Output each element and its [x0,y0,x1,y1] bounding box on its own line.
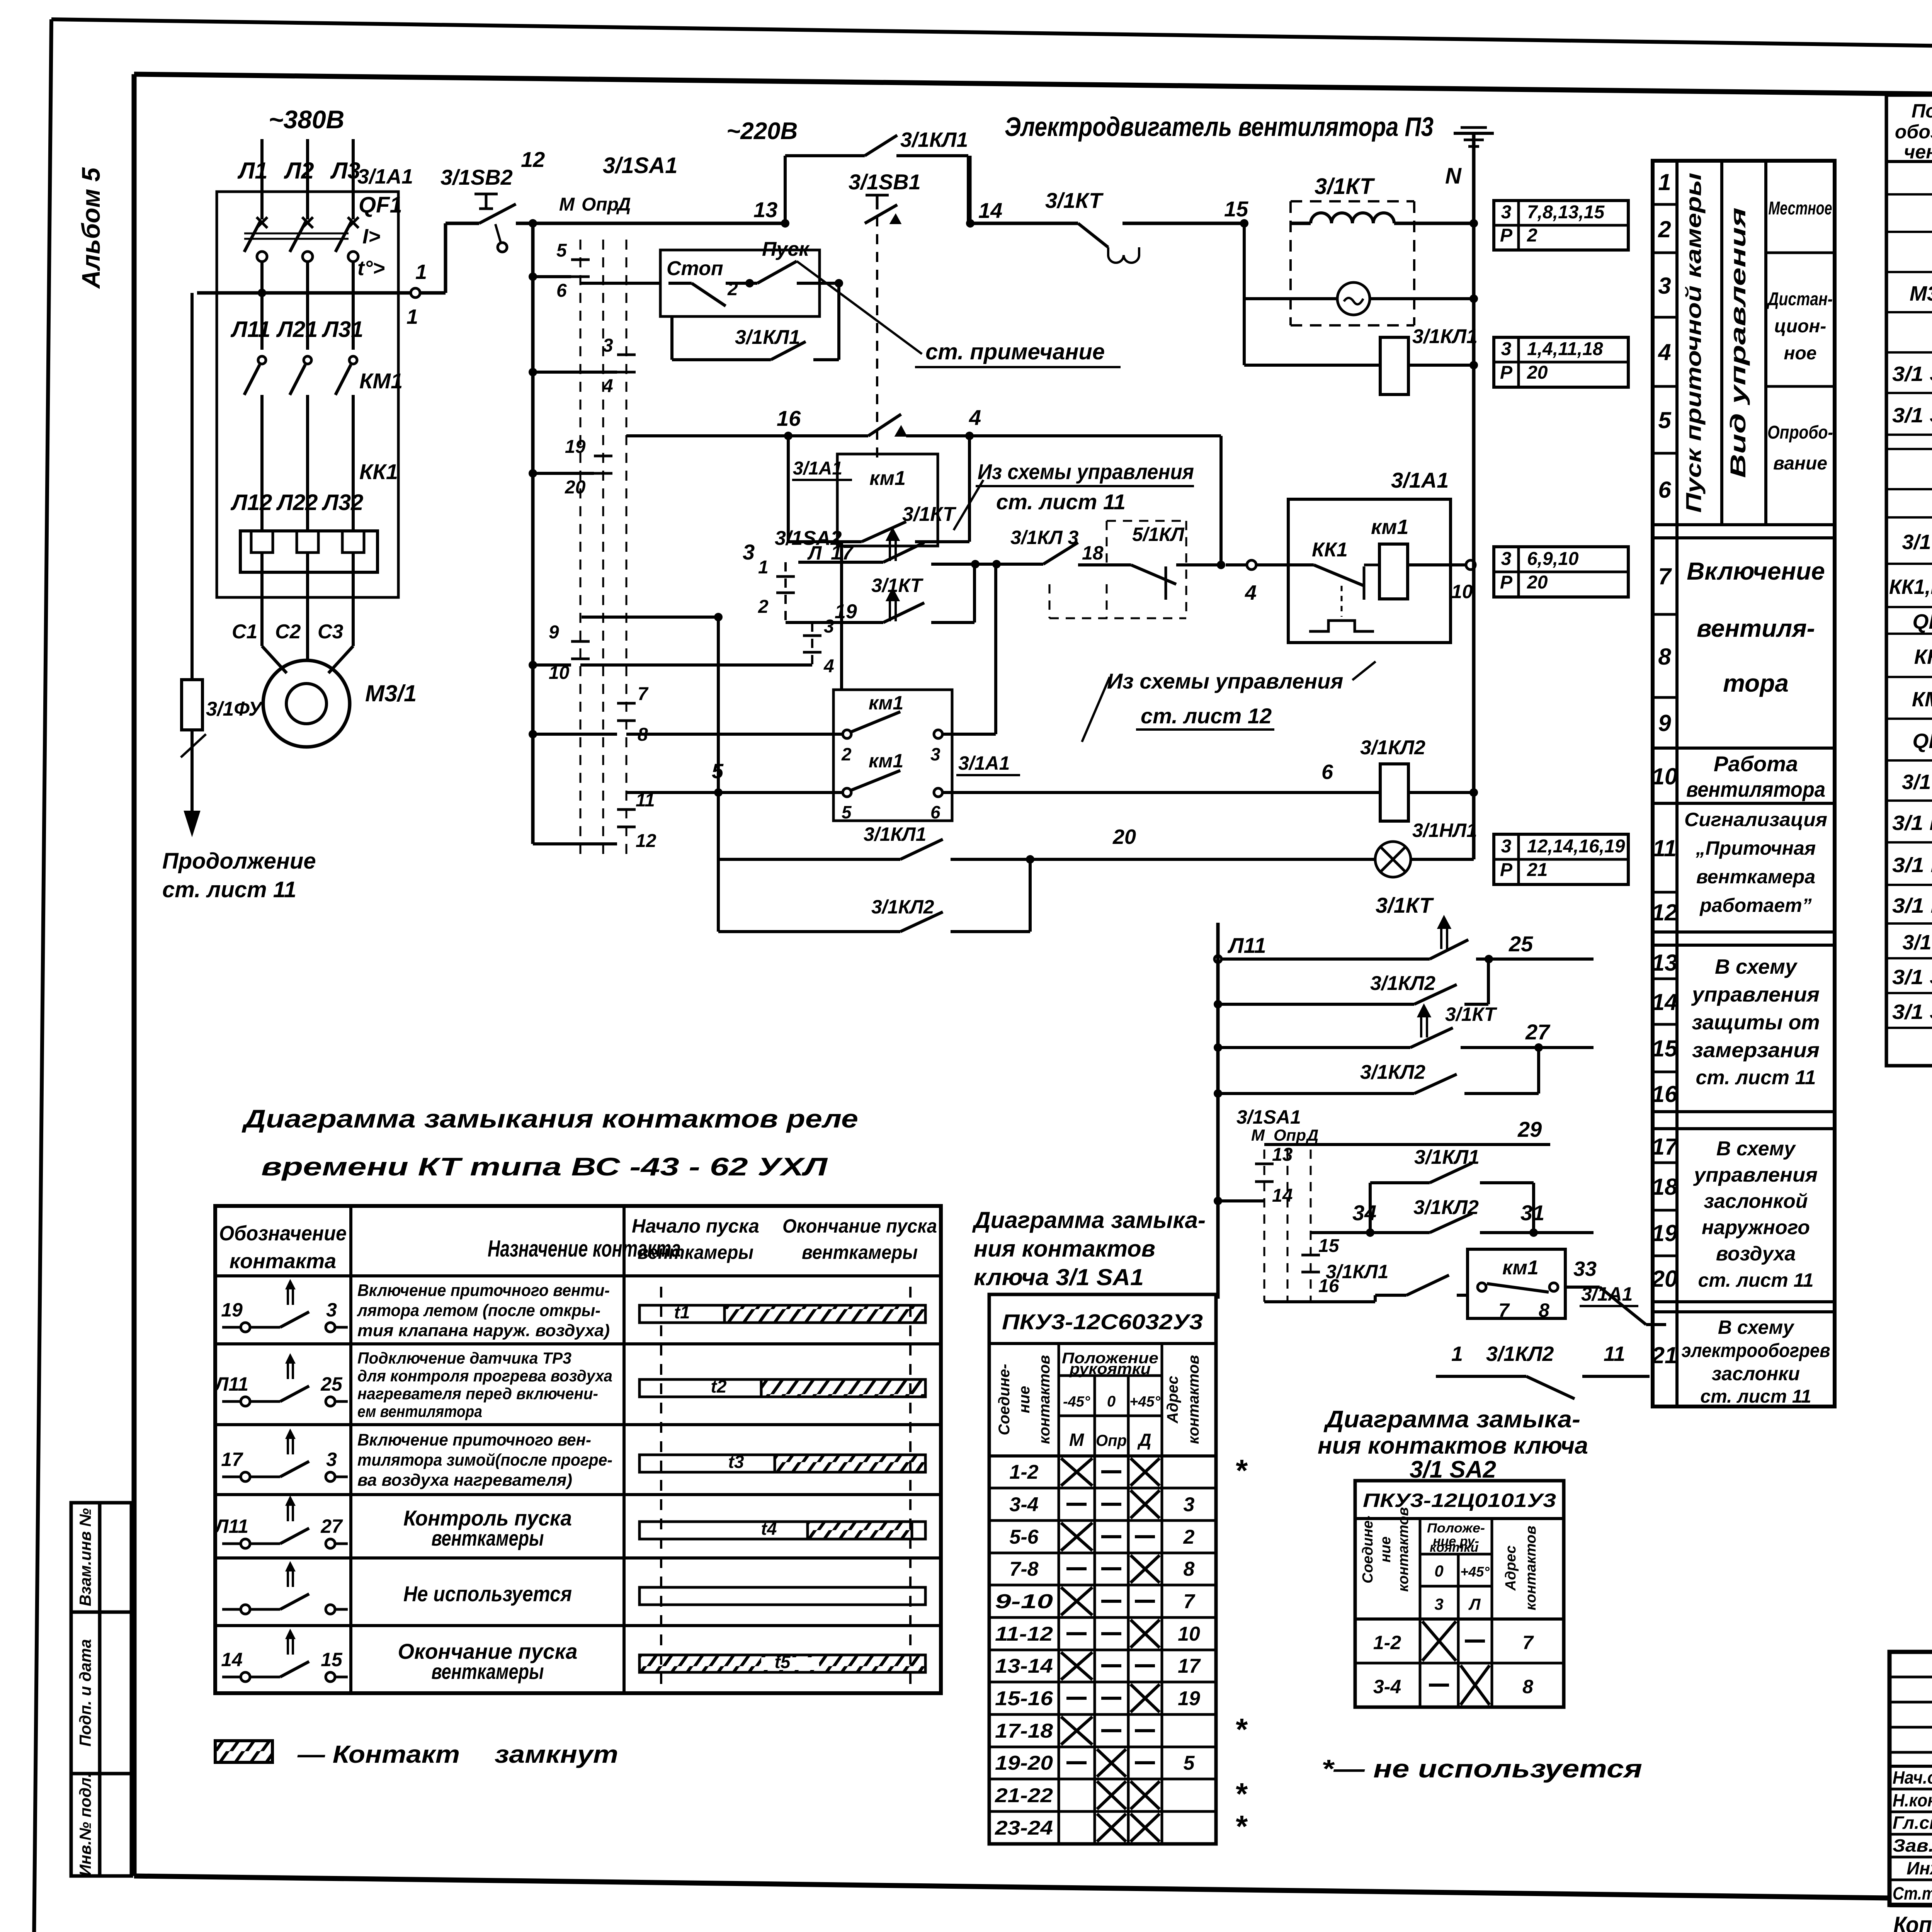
svg-text:Диаграмма замыкания контакто: Диаграмма замыкания контактов реле [241,1104,858,1133]
svg-text:М: М [1069,1430,1085,1450]
svg-text:тия клапана наруж. воздуха): тия клапана наруж. воздуха) [357,1321,610,1340]
svg-text:Подп. и дата: Подп. и дата [76,1639,94,1747]
svg-text:км1: км1 [1371,515,1408,539]
svg-text:3: 3 [1184,1493,1195,1516]
svg-text:Л3: Л3 [330,158,361,184]
svg-text:Местное: Местное [1769,198,1832,219]
svg-text:ст. лист 11: ст. лист 11 [1696,1066,1816,1089]
svg-text:контактов: контактов [1036,1355,1053,1444]
svg-text:Включение приточного вен-: Включение приточного вен- [357,1430,591,1449]
svg-text:Л11: Л11 [214,1515,248,1537]
svg-text:венткамеры: венткамеры [802,1242,918,1263]
svg-text:3: 3 [603,335,613,356]
svg-text:3/1ФУ: 3/1ФУ [206,698,264,720]
svg-text:3/1КЛ2: 3/1КЛ2 [1360,1061,1425,1083]
svg-text:тора: тора [1723,669,1789,697]
svg-text:12: 12 [636,831,656,851]
svg-text:3/1КТ: 3/1КТ [1045,188,1104,213]
svg-text:Л11: Л11 [1227,933,1266,957]
svg-text:3/1КЛ1: 3/1КЛ1 [1414,1146,1480,1168]
svg-text:t°>: t°> [357,257,385,280]
svg-text:Д: Д [616,194,631,215]
svg-text:3: 3 [824,616,834,637]
svg-text:3/1 FУ: 3/1 FУ [1902,770,1932,794]
svg-text:6: 6 [1321,760,1333,784]
svg-text:3/1КЛ2: 3/1КЛ2 [871,896,934,918]
svg-text:5: 5 [1658,407,1672,433]
svg-text:20: 20 [1527,362,1548,383]
svg-text:КК1: КК1 [1914,645,1932,668]
svg-text:5: 5 [712,760,724,783]
svg-text:3/1КЛ1: 3/1КЛ1 [864,823,926,845]
svg-text:М: М [1251,1126,1265,1144]
svg-text:В схему: В схему [1715,955,1798,978]
svg-text:*: * [1235,1809,1248,1844]
svg-text:6: 6 [1658,477,1671,503]
svg-text:3/1КЛ1: 3/1КЛ1 [1412,325,1478,348]
svg-text:5: 5 [1184,1752,1195,1774]
svg-text:17-18: 17-18 [995,1720,1053,1742]
svg-text:16: 16 [777,406,801,430]
svg-text:коятки: коятки [1430,1540,1478,1555]
svg-text:3/1 КЛ2: 3/1 КЛ2 [1892,894,1932,917]
svg-text:времени КТ типа ВС -43: времени КТ типа ВС -43 - 62 УХЛ [261,1152,828,1181]
svg-text:6,9,10: 6,9,10 [1527,549,1579,569]
svg-text:14: 14 [978,198,1002,223]
svg-text:3/1А1: 3/1А1 [793,458,842,479]
svg-text:+45°: +45° [1460,1564,1490,1580]
svg-text:Диаграмма замыка-: Диаграмма замыка- [1323,1406,1580,1433]
svg-text:15: 15 [321,1649,343,1670]
svg-text:5: 5 [556,240,567,261]
svg-text:3: 3 [930,744,940,764]
svg-text:13: 13 [1652,950,1678,976]
svg-text:Р: Р [1500,362,1513,383]
svg-text:3/1КЛ 3: 3/1КЛ 3 [1010,527,1078,548]
svg-text:17: 17 [221,1449,243,1470]
svg-text:3/1КТ: 3/1КТ [871,575,924,596]
svg-text:Электродвигатель вентилятора П: Электродвигатель вентилятора П3 [1005,112,1434,142]
svg-text:М3/1: М3/1 [1910,282,1932,305]
svg-text:1: 1 [415,260,427,284]
svg-text:Положе-: Положе- [1427,1521,1485,1536]
svg-text:23-24: 23-24 [995,1817,1053,1839]
svg-text:9-10: 9-10 [995,1590,1053,1613]
svg-text:ПКУ3-12С6032У3: ПКУ3-12С6032У3 [1002,1310,1203,1334]
svg-text:14: 14 [221,1649,243,1670]
svg-text:электрообогрев: электрообогрев [1682,1340,1830,1361]
svg-text:QF1: QF1 [359,192,402,218]
svg-text:вентилятора: вентилятора [1686,777,1825,801]
svg-text:*: * [1235,1712,1248,1747]
svg-text:11: 11 [1653,835,1677,861]
svg-text:Диаграмма замыка-: Диаграмма замыка- [972,1207,1206,1233]
svg-text:обозна-: обозна- [1895,121,1932,143]
svg-text:18: 18 [1652,1174,1678,1200]
svg-text:7: 7 [1498,1299,1510,1321]
svg-text:8: 8 [1539,1299,1549,1321]
svg-text:Опр: Опр [1096,1431,1127,1449]
svg-text:8: 8 [1522,1676,1533,1697]
svg-text:КК1: КК1 [359,459,398,484]
svg-text:3/1 КЛ1: 3/1 КЛ1 [1892,854,1932,877]
svg-text:ст. лист 11: ст. лист 11 [1700,1386,1811,1407]
svg-text:3/1SA1: 3/1SA1 [1236,1106,1301,1128]
svg-text:ем вентилятора: ем вентилятора [357,1402,482,1420]
svg-text:Л11: Л11 [230,317,270,342]
svg-text:км1: км1 [1502,1257,1539,1279]
svg-text:ст. примечание: ст. примечание [925,339,1105,364]
svg-text:наружного: наружного [1702,1216,1810,1239]
svg-text:3/1А1: 3/1А1 [357,165,413,188]
svg-text:В схему: В схему [1716,1138,1796,1160]
svg-text:Не используется: Не используется [403,1582,572,1606]
svg-text:км1: км1 [869,750,903,772]
svg-text:Р: Р [1500,860,1513,880]
svg-text:венткамеры: венткамеры [432,1659,544,1684]
svg-text:Зав.гр.: Зав.гр. [1893,1835,1932,1855]
svg-text:КК1,КМ1,: КК1,КМ1, [1889,575,1932,599]
svg-text:3/1КТ: 3/1КТ [1445,1003,1498,1025]
svg-text:Обозначение: Обозначение [219,1222,347,1245]
svg-text:Включение приточного венти-: Включение приточного венти- [357,1281,610,1300]
svg-text:ст. лист 11: ст. лист 11 [1698,1269,1813,1291]
svg-text:25: 25 [320,1373,343,1395]
svg-text:20: 20 [1527,572,1548,593]
svg-text:Л32: Л32 [321,490,363,515]
svg-text:ние: ние [1016,1386,1033,1413]
svg-text:венткамеры: венткамеры [638,1242,753,1263]
svg-text:Инв.№ подл.: Инв.№ подл. [76,1773,94,1876]
svg-text:Копировал: Копировал [1893,1912,1932,1932]
svg-text:1: 1 [406,305,418,328]
svg-text:тилятора зимой(после прогре-: тилятора зимой(после прогре- [357,1451,612,1469]
svg-text:ст. лист 12: ст. лист 12 [1141,704,1272,728]
svg-text:19: 19 [565,437,586,457]
svg-text:5/1КЛ: 5/1КЛ [1132,524,1185,545]
svg-text:защиты от: защиты от [1692,1011,1820,1034]
svg-text:ние: ние [1378,1536,1394,1562]
svg-text:2: 2 [758,597,769,617]
svg-text:ст. лист 11: ст. лист 11 [996,490,1126,514]
svg-text:Альбом 5: Альбом 5 [77,167,105,289]
svg-text:10: 10 [1178,1623,1200,1645]
svg-text:3/1КЛ2: 3/1КЛ2 [1360,736,1425,759]
svg-text:0: 0 [1107,1393,1116,1410]
svg-text:Л31: Л31 [321,317,363,342]
svg-text:3/1КЛ2: 3/1КЛ2 [1486,1342,1554,1366]
svg-text:27: 27 [320,1515,343,1537]
svg-text:t4: t4 [761,1519,777,1539]
svg-text:3/1НЛ1: 3/1НЛ1 [1412,820,1477,841]
svg-text:3/1КТ: 3/1КТ [1315,174,1375,199]
svg-text:3-4: 3-4 [1373,1676,1401,1697]
svg-text:Нач.отд: Нач.отд [1893,1767,1932,1787]
svg-text:Сигнализация: Сигнализация [1684,809,1827,830]
svg-text:Из схемы управления: Из схемы управления [1107,669,1343,693]
svg-text:15: 15 [1652,1036,1678,1061]
svg-text:3/1SA1: 3/1SA1 [603,153,677,178]
svg-text:3: 3 [1501,549,1512,569]
svg-text:управления: управления [1693,1164,1818,1186]
svg-text:3/1 SA1: 3/1 SA1 [1892,966,1932,989]
svg-text:Д: Д [1137,1430,1151,1450]
svg-text:7: 7 [1522,1632,1534,1653]
svg-text:Пуск приточной камеры: Пуск приточной камеры [1681,173,1706,513]
svg-text:14: 14 [1272,1185,1293,1206]
svg-text:t3: t3 [728,1452,744,1472]
svg-text:Л: Л [1468,1595,1481,1613]
svg-text:Гл.спец: Гл.спец [1893,1813,1932,1833]
svg-text:3/1КЛ1: 3/1КЛ1 [735,326,800,349]
svg-text:Опробо-: Опробо- [1767,422,1833,443]
svg-text:0: 0 [1434,1562,1443,1580]
svg-text:11-12: 11-12 [995,1623,1053,1645]
svg-text:Л2: Л2 [284,158,314,184]
svg-text:В схему: В схему [1718,1316,1795,1338]
svg-text:Начало пуска: Начало пуска [632,1215,759,1237]
svg-text:Взам.инв №: Взам.инв № [76,1508,94,1606]
svg-text:4: 4 [969,405,981,430]
svg-text:19: 19 [1652,1220,1678,1246]
svg-text:t2: t2 [711,1376,727,1396]
svg-text:3/1 SB2: 3/1 SB2 [1892,404,1932,427]
svg-text:3/1КЛ1: 3/1КЛ1 [1326,1261,1388,1282]
svg-text:6: 6 [556,281,567,301]
svg-text:33: 33 [1573,1257,1597,1281]
svg-text:ния контактов ключа: ния контактов ключа [1318,1432,1588,1459]
svg-text:вентиля-: вентиля- [1697,614,1815,642]
svg-text:1: 1 [1658,169,1671,195]
svg-text:*: * [1235,1777,1248,1811]
svg-text:Адрес: Адрес [1503,1546,1519,1591]
svg-text:+45°: +45° [1129,1394,1160,1410]
svg-text:4: 4 [823,656,834,677]
svg-text:замкнут: замкнут [495,1740,618,1768]
svg-text:ния контактов: ния контактов [974,1236,1155,1262]
svg-text:Адрес: Адрес [1164,1376,1181,1423]
svg-text:13: 13 [753,197,777,222]
svg-text:19: 19 [835,600,857,623]
svg-text:3/1КТ: 3/1КТ [902,503,957,526]
svg-text:вание: вание [1773,453,1827,474]
svg-text:3/1 SA2: 3/1 SA2 [1892,1000,1932,1024]
svg-text:4: 4 [1245,581,1257,604]
svg-text:~380В: ~380В [269,105,344,134]
svg-text:6: 6 [930,802,940,822]
svg-text:5-6: 5-6 [1009,1526,1039,1548]
svg-text:Л22: Л22 [276,490,318,515]
svg-text:21-22: 21-22 [995,1784,1053,1807]
svg-text:7: 7 [1184,1590,1196,1613]
svg-text:11: 11 [1604,1342,1625,1366]
svg-text:3: 3 [743,540,755,564]
svg-text:Пуск: Пуск [762,238,810,260]
svg-text:Л11: Л11 [214,1373,248,1395]
svg-text:Из схемы управления: Из схемы управления [978,459,1194,484]
svg-text:Поз.: Поз. [1912,100,1932,122]
svg-text:км1: км1 [869,692,903,714]
svg-text:29: 29 [1517,1117,1542,1141]
svg-text:7: 7 [1658,563,1672,589]
svg-text:ключа 3/1 SA1: ключа 3/1 SA1 [974,1264,1144,1290]
svg-text:Соедине-: Соедине- [1360,1515,1376,1583]
svg-text:19: 19 [221,1299,243,1321]
svg-text:Окончание пуска: Окончание пуска [782,1215,937,1237]
svg-text:цион-: цион- [1774,316,1827,337]
svg-text:9: 9 [1658,710,1671,736]
svg-text:1-2: 1-2 [1373,1632,1401,1653]
svg-text:КМ1: КМ1 [359,369,403,393]
svg-text:Соедине-: Соедине- [996,1364,1013,1435]
svg-text:3/1КЛ1: 3/1КЛ1 [900,128,968,151]
svg-text:заслонкой: заслонкой [1704,1190,1808,1213]
svg-text:3/1КТ: 3/1КТ [1376,893,1434,917]
svg-text:10: 10 [1652,764,1678,789]
svg-text:контактов: контактов [1395,1507,1412,1592]
svg-text:I>: I> [362,225,381,248]
svg-text:км1: км1 [869,467,906,490]
svg-text:Инж.: Инж. [1906,1858,1932,1878]
svg-text:2: 2 [1183,1526,1195,1548]
svg-text:Стоп: Стоп [667,257,723,280]
svg-text:М: М [559,194,575,215]
svg-text:t1: t1 [674,1302,690,1322]
svg-text:N: N [1445,163,1462,189]
svg-text:18: 18 [1082,542,1104,564]
svg-text:-45°: -45° [1063,1394,1090,1410]
svg-text:20: 20 [1651,1266,1678,1292]
svg-text:15: 15 [1224,197,1248,221]
svg-text:17: 17 [1652,1134,1679,1160]
svg-text:15-16: 15-16 [995,1687,1053,1710]
svg-text:8: 8 [1658,644,1671,670]
svg-text:3: 3 [326,1449,337,1470]
svg-text:М3/1: М3/1 [365,680,417,706]
svg-text:QF1: QF1 [1912,610,1932,633]
svg-text:7,8,13,15: 7,8,13,15 [1527,202,1605,223]
svg-text:КМ1: КМ1 [1912,688,1932,711]
svg-text:16: 16 [1652,1081,1678,1107]
svg-text:10: 10 [1451,581,1473,602]
svg-text:Д: Д [1306,1126,1318,1144]
svg-text:Р: Р [1500,572,1513,593]
svg-text:19-20: 19-20 [995,1752,1053,1774]
svg-text:12: 12 [521,147,545,172]
svg-text:3: 3 [1434,1595,1443,1613]
svg-text:1: 1 [758,557,769,578]
svg-text:ПКУ3-12Ц0101У3: ПКУ3-12Ц0101У3 [1363,1490,1556,1511]
svg-text:20: 20 [1112,825,1136,849]
svg-text:2: 2 [1658,216,1671,242]
svg-text:7-8: 7-8 [1009,1558,1038,1580]
svg-text:27: 27 [1525,1020,1551,1044]
svg-text:7: 7 [638,684,649,704]
svg-text:Подключение датчика ТР3: Подключение датчика ТР3 [357,1349,571,1367]
svg-text:21: 21 [1527,860,1548,880]
svg-text:3: 3 [1658,273,1671,299]
svg-text:20: 20 [565,477,586,498]
svg-text:34: 34 [1352,1201,1376,1225]
svg-text:управления: управления [1691,983,1820,1006]
svg-text:~220В: ~220В [726,118,798,145]
svg-text:3/1SB1: 3/1SB1 [849,170,921,194]
svg-text:Л12: Л12 [230,490,272,515]
svg-text:3: 3 [1501,339,1512,359]
svg-text:3: 3 [1501,836,1512,857]
svg-text:3/1 HЛ1: 3/1 HЛ1 [1892,811,1932,835]
svg-text:1: 1 [1451,1342,1463,1366]
svg-text:Опр: Опр [1274,1126,1306,1144]
svg-text:3/1 А1: 3/1 А1 [1902,531,1932,554]
svg-text:15: 15 [1318,1236,1340,1256]
svg-text:25: 25 [1509,932,1533,956]
svg-text:3/1КЛ2: 3/1КЛ2 [1413,1196,1479,1219]
svg-text:ва воздуха нагревателя): ва воздуха нагревателя) [357,1471,572,1490]
svg-text:замерзания: замерзания [1692,1039,1820,1062]
svg-text:С3: С3 [318,621,344,643]
svg-text:Включение: Включение [1687,557,1825,585]
svg-text:воздуха: воздуха [1716,1243,1796,1265]
svg-text:8: 8 [1184,1558,1195,1580]
svg-text:С2: С2 [275,621,301,643]
svg-text:3/1 SB1: 3/1 SB1 [1892,362,1932,386]
svg-text:9: 9 [549,622,559,643]
svg-text:венткамеры: венткамеры [432,1526,544,1550]
svg-text:нагревателя перед включени-: нагревателя перед включени- [357,1384,598,1403]
svg-text:ное: ное [1784,343,1816,364]
svg-text:Л: Л [807,542,822,564]
svg-text:2: 2 [1527,225,1537,246]
svg-text:Опр: Опр [582,194,619,215]
svg-text:17: 17 [1178,1655,1201,1677]
svg-text:чение: чение [1904,141,1932,163]
svg-text:Н.контр: Н.контр [1893,1790,1932,1810]
svg-text:контакта: контакта [230,1250,336,1273]
svg-text:14: 14 [1652,989,1678,1015]
svg-text:контактов: контактов [1523,1526,1539,1610]
svg-text:для контроля прогрева воздуха: для контроля прогрева воздуха [357,1367,612,1385]
svg-text:5: 5 [842,802,852,822]
svg-text:t5: t5 [775,1652,791,1672]
svg-text:QF1: QF1 [1912,730,1932,753]
svg-text:рукоятки: рукоятки [1069,1361,1151,1378]
svg-text:3-4: 3-4 [1009,1493,1038,1516]
svg-text:1,4,11,18: 1,4,11,18 [1527,339,1603,359]
svg-text:3/1А1: 3/1А1 [1391,468,1449,492]
svg-text:3/1КЛ2: 3/1КЛ2 [1370,972,1435,995]
svg-text:3/1 КТ: 3/1 КТ [1903,931,1932,954]
svg-text:3/1SB2: 3/1SB2 [440,165,513,189]
svg-text:*: * [1235,1453,1248,1488]
svg-text:лятора летом (после откры-: лятора летом (после откры- [357,1301,600,1320]
svg-text:*— не используется: *— не используется [1321,1754,1642,1783]
svg-text:Р: Р [1500,225,1513,246]
svg-text:венткамера: венткамера [1696,866,1815,888]
svg-text:1-2: 1-2 [1009,1461,1038,1483]
svg-text:Продолжение: Продолжение [162,849,316,874]
svg-text:контактов: контактов [1185,1355,1202,1444]
svg-text:13-14: 13-14 [995,1655,1053,1677]
svg-text:Работа: Работа [1714,752,1798,776]
svg-text:4: 4 [602,376,613,396]
svg-text:С1: С1 [232,621,257,643]
svg-text:3/1А1: 3/1А1 [958,752,1010,774]
svg-text:Л21: Л21 [276,317,318,342]
svg-text:ст. лист 11: ст. лист 11 [162,877,296,902]
svg-text:17: 17 [831,542,854,564]
svg-text:21: 21 [1651,1342,1678,1368]
